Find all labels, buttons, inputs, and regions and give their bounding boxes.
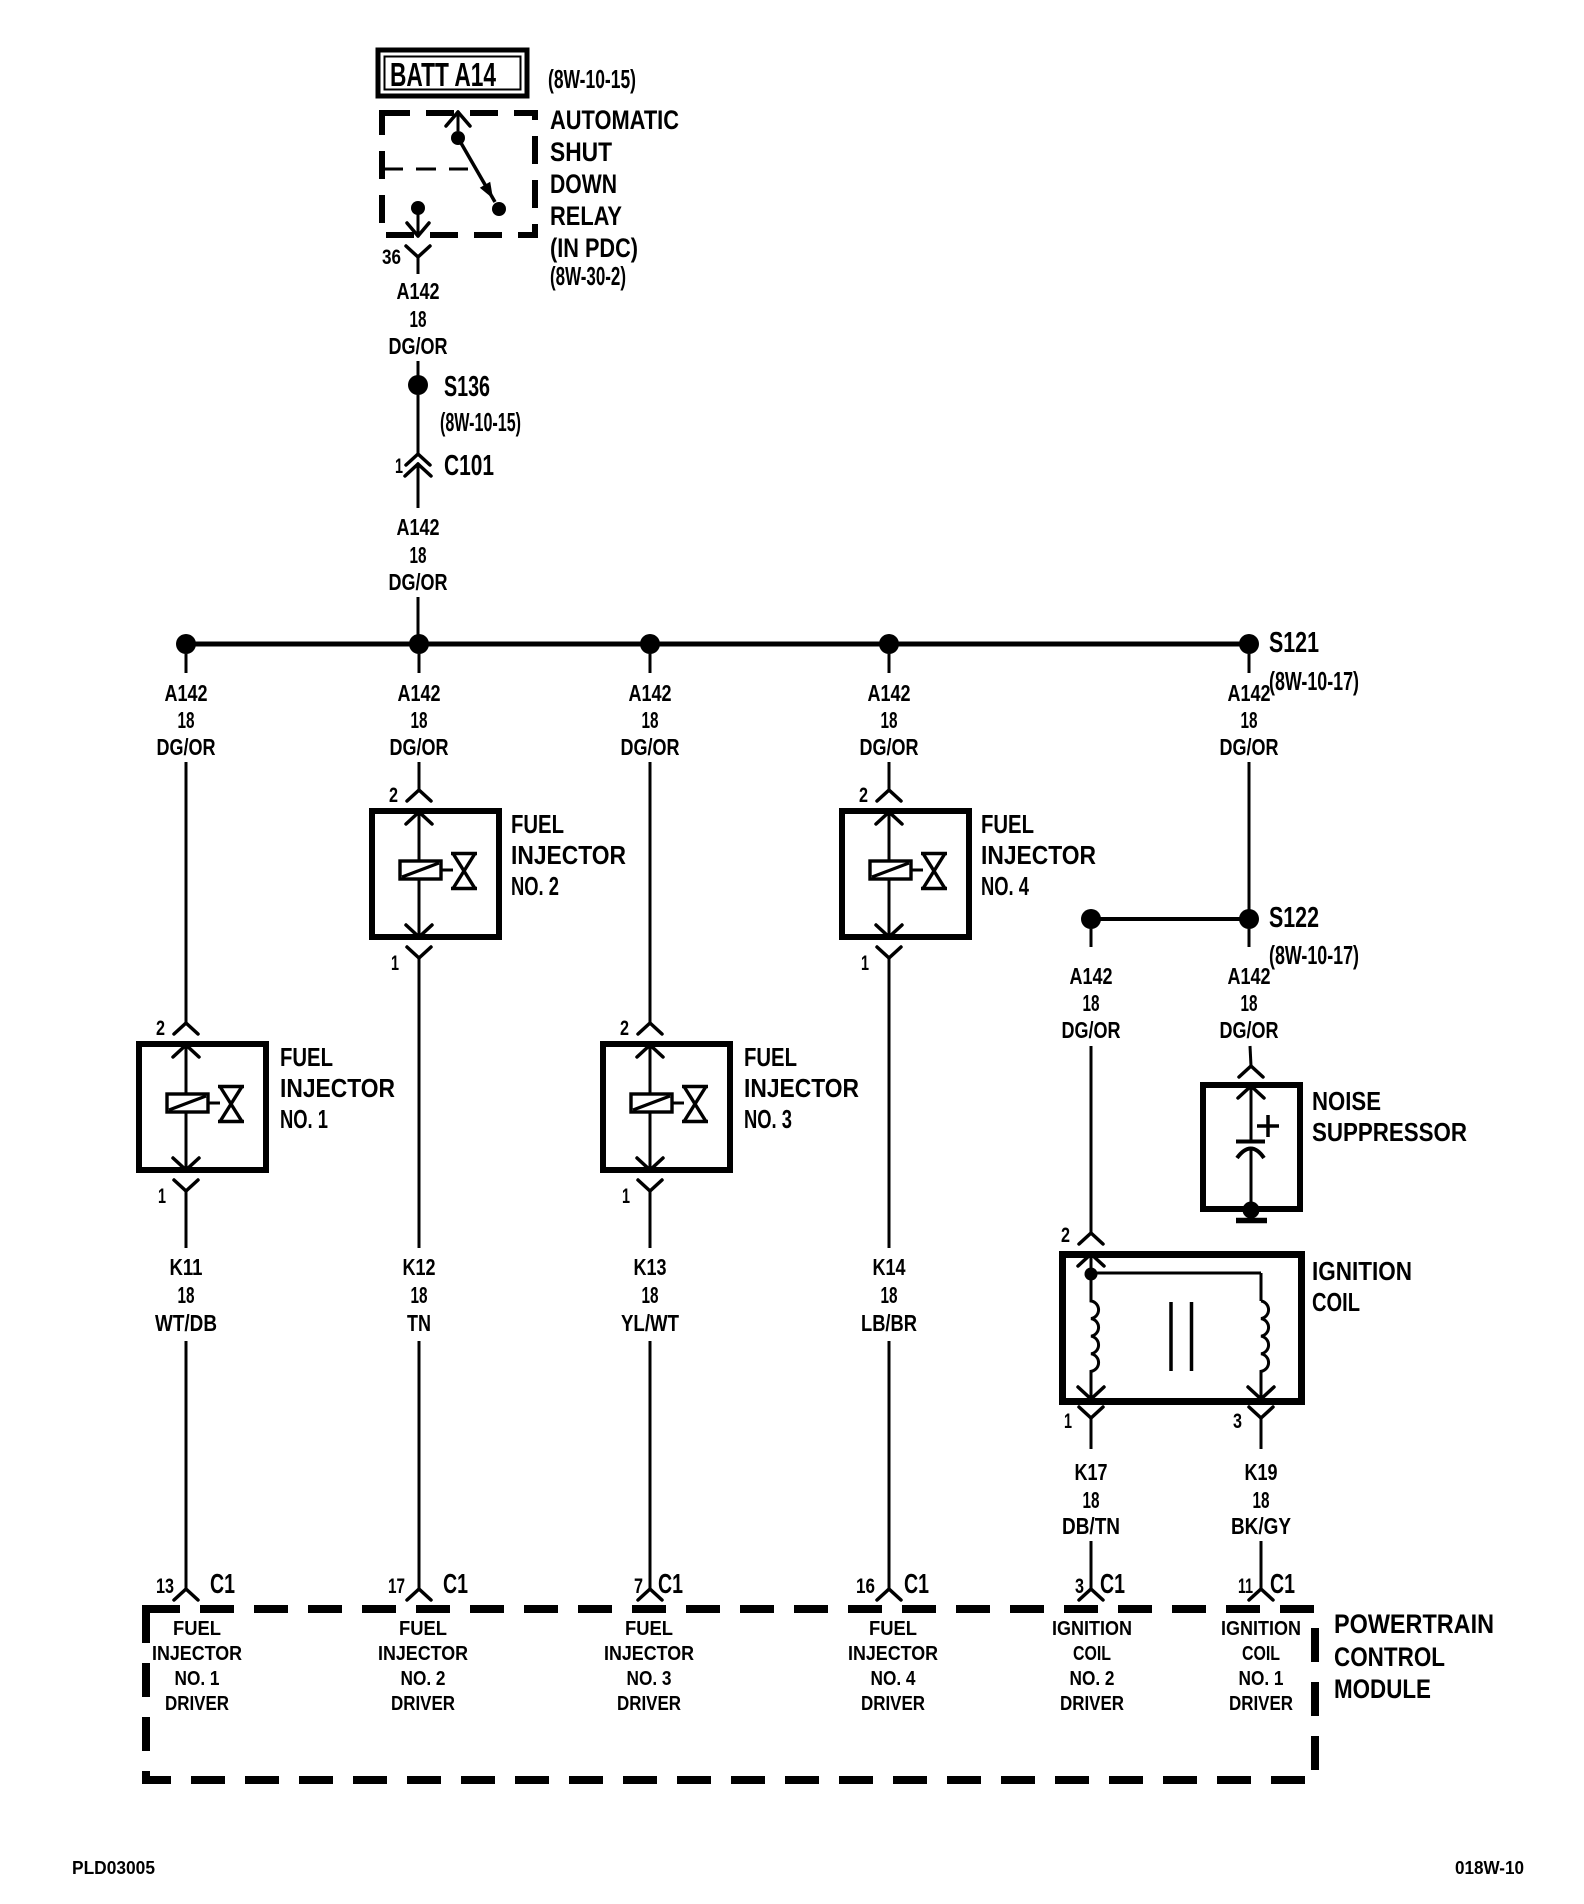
PCM driver text FUEL INJECTOR NO. 3 [604,1617,694,1715]
wire label A142 18 DG/OR (relay to S136) [389,278,448,359]
wire label K12 18 TN [403,1254,436,1336]
svg-text:17: 17 [388,1575,405,1598]
svg-text:A142: A142 [629,680,672,706]
wire label A142 18 DG/OR x=1249 [1220,963,1279,1043]
transformer core lines [1171,1302,1192,1371]
svg-text:1: 1 [391,952,399,975]
junction dot on bus x=650 [640,634,660,654]
bus wire A142 (splice S121) [186,642,1249,647]
PCM driver text FUEL INJECTOR NO. 2 [378,1617,468,1715]
fuel injector 3 solenoid coil [631,1094,672,1112]
secondary winding L2 [1261,1301,1269,1397]
svg-text:(IN PDC): (IN PDC) [550,233,638,263]
PCM driver text IGNITION COIL NO. 2 [1052,1617,1132,1715]
svg-text:DG/OR: DG/OR [1220,734,1279,760]
svg-text:INJECTOR: INJECTOR [981,840,1096,870]
wire K1x below fuel injector 4 [888,980,891,1248]
wire stub below bus x=1249 [1248,654,1251,673]
capacitor C (noise suppressor) top plate [1236,1140,1265,1144]
PCM pin 11 connector C1 [1249,1589,1261,1600]
wire label K17 18 DB/TN [1062,1459,1120,1539]
PCM driver text IGNITION COIL NO. 1 [1221,1617,1301,1715]
wire capacitor to case ground [1250,1150,1253,1203]
wire to PCM pin 13 [185,1341,188,1589]
svg-text:18: 18 [642,1282,659,1308]
wire stub below junction x=1091 [1090,929,1093,947]
svg-text:18: 18 [1253,1487,1270,1513]
svg-text:K14: K14 [873,1254,906,1280]
wire C101 to bus [417,464,420,508]
svg-text:DB/TN: DB/TN [1062,1513,1120,1539]
svg-text:2: 2 [859,784,868,807]
svg-text:NO. 4: NO. 4 [981,871,1029,901]
label FUEL INJECTOR NO. 4 [981,809,1096,901]
label POWERTRAIN CONTROL MODULE [1334,1609,1494,1704]
svg-text:DG/OR: DG/OR [1062,1017,1121,1043]
fuel injector 3 valve (bowtie) [682,1087,708,1122]
label FUEL INJECTOR NO. 1 [280,1042,395,1134]
svg-text:FUEL: FUEL [511,809,564,839]
svg-text:SUPPRESSOR: SUPPRESSOR [1312,1117,1467,1147]
relay name text [550,105,679,291]
junction dot on bus x=1249 [1239,634,1259,654]
svg-text:FUEL: FUEL [625,1617,673,1640]
label FUEL INJECTOR NO. 3 [744,1042,859,1134]
wire label K19 18 BK/GY [1231,1459,1291,1539]
wire label A142 18 DG/OR x=650 [621,680,680,760]
ignition coil pin 2 connector [1079,1233,1091,1244]
connector C101 [405,454,431,476]
PCM pin 16 connector C1 [877,1589,889,1600]
svg-text:K11: K11 [170,1254,203,1280]
svg-text:NO. 1: NO. 1 [1239,1667,1284,1690]
wire K1x below fuel injector 2 [418,980,421,1248]
ignition coil internal pin 1 arrow [1078,1387,1091,1399]
svg-text:COIL: COIL [1242,1642,1280,1665]
svg-text:018W-10: 018W-10 [1455,1858,1524,1878]
svg-text:3: 3 [1233,1410,1242,1433]
svg-text:DRIVER: DRIVER [1229,1692,1293,1715]
svg-text:18: 18 [881,1282,898,1308]
ground stub bar [1236,1218,1267,1224]
svg-text:C1: C1 [1100,1568,1125,1599]
relay internal dashed divider [383,168,468,171]
svg-text:18: 18 [411,1282,428,1308]
label IGNITION COIL [1312,1256,1412,1317]
svg-text:K17: K17 [1075,1459,1108,1485]
svg-text:18: 18 [410,542,427,568]
svg-text:3: 3 [1075,1575,1084,1598]
svg-text:S121: S121 [1269,627,1319,659]
svg-text:2: 2 [389,784,398,807]
ignition coil pin 3 connector [1249,1407,1273,1449]
junction dot on bus x=186 [176,634,196,654]
fuel injector 1 solenoid coil [167,1094,208,1112]
svg-text:AUTOMATIC: AUTOMATIC [550,105,679,135]
svg-text:FUEL: FUEL [744,1042,797,1072]
svg-text:A142: A142 [398,680,441,706]
svg-text:RELAY: RELAY [550,201,622,231]
fuel injector 4 solenoid coil [870,861,911,879]
svg-text:INJECTOR: INJECTOR [511,840,626,870]
PCM driver text FUEL INJECTOR NO. 1 [152,1617,242,1715]
svg-text:A142: A142 [165,680,208,706]
svg-text:C1: C1 [658,1568,683,1599]
svg-text:DRIVER: DRIVER [861,1692,925,1715]
fuel injector 4 internal wire and pin 1 arrow [876,879,902,937]
svg-text:FUEL: FUEL [173,1617,221,1640]
label S122 [1269,902,1359,970]
svg-text:18: 18 [1241,707,1258,733]
svg-text:COIL: COIL [1073,1642,1111,1665]
wire A142 down to fuel injector 2 [418,762,421,790]
svg-text:(8W-10-17): (8W-10-17) [1269,940,1359,970]
noise suppressor pin connector [1239,1066,1251,1077]
svg-text:K19: K19 [1245,1459,1278,1485]
svg-text:YL/WT: YL/WT [621,1310,679,1336]
svg-text:DG/OR: DG/OR [157,734,216,760]
fuel injector 4 valve (bowtie) [921,854,947,889]
svg-text:1: 1 [395,455,403,478]
label NOISE SUPPRESSOR [1312,1086,1467,1147]
svg-text:18: 18 [642,707,659,733]
svg-text:11: 11 [1238,1575,1253,1598]
svg-text:IGNITION: IGNITION [1221,1617,1301,1640]
pin 1 connector of fuel injector 2 [407,947,431,980]
fuel injector 2 valve (bowtie) [451,854,477,889]
fuel injector 2 solenoid coil [400,861,441,879]
svg-text:BATT A14: BATT A14 [390,56,496,93]
relay coil pin 36 [407,201,429,236]
wire down to noise suppressor [1250,1046,1251,1066]
noise suppressor internal pin arrow [1238,1086,1264,1140]
svg-text:18: 18 [881,707,898,733]
fuel injector NO. 2 box [372,811,499,937]
svg-text:BK/GY: BK/GY [1231,1513,1291,1539]
relay common pin arrow [446,112,470,145]
svg-text:INJECTOR: INJECTOR [604,1642,694,1665]
power feed box BATT A14 [378,50,527,96]
svg-text:TN: TN [407,1310,431,1336]
pin 2 connector of fuel injector 1 [174,1023,186,1034]
svg-text:18: 18 [410,306,427,332]
svg-text:18: 18 [178,1282,195,1308]
relay pin 36 connector [406,246,430,274]
pin 1 connector of fuel injector 3 [638,1180,662,1213]
svg-text:DG/OR: DG/OR [390,734,449,760]
svg-text:(8W-30-2): (8W-30-2) [550,261,626,291]
svg-text:(8W-10-15): (8W-10-15) [440,407,521,437]
svg-text:NO. 2: NO. 2 [401,1667,446,1690]
label S121 [1269,627,1359,696]
svg-text:COIL: COIL [1312,1287,1360,1317]
wire segment to S136 [417,361,420,376]
svg-text:18: 18 [1241,990,1258,1016]
svg-text:NO. 1: NO. 1 [175,1667,220,1690]
wire A142 down to fuel injector 4 [888,762,891,790]
polarity plus sign [1257,1115,1279,1137]
fuel injector 1 internal wire and pin 1 arrow [173,1112,199,1170]
svg-text:S122: S122 [1269,902,1319,934]
svg-text:1: 1 [861,952,869,975]
svg-text:18: 18 [1083,990,1100,1016]
svg-text:NO. 4: NO. 4 [871,1667,916,1690]
svg-text:DG/OR: DG/OR [621,734,680,760]
splice S136 [408,375,428,395]
svg-text:(8W-10-17): (8W-10-17) [1269,666,1359,696]
svg-text:A142: A142 [1228,963,1271,989]
wire primary top link [1091,1273,1261,1301]
pin 1 connector of fuel injector 1 [174,1180,198,1213]
wire stub below bus x=650 [649,654,652,673]
svg-text:DRIVER: DRIVER [391,1692,455,1715]
svg-text:NO. 3: NO. 3 [627,1667,672,1690]
wire label A142 18 DG/OR x=1091 [1062,963,1121,1043]
svg-text:A142: A142 [868,680,911,706]
svg-text:K13: K13 [634,1254,667,1280]
pin 1 connector of fuel injector 4 [877,947,901,980]
svg-text:LB/BR: LB/BR [861,1310,917,1336]
wire to PCM pin 7 [649,1341,652,1589]
svg-text:A142: A142 [397,278,440,304]
fuel injector 2 internal wire and pin 1 arrow [406,879,432,937]
ignition coil internal pin 3 arrow [1248,1387,1261,1399]
splice S122 dot [1239,909,1259,929]
junction dot left of S122 [1081,909,1101,929]
svg-text:1: 1 [158,1185,166,1208]
wire label K14 18 LB/BR [861,1254,917,1336]
svg-text:1: 1 [1064,1410,1072,1433]
fuel injector NO. 3 box [603,1044,730,1170]
svg-text:C1: C1 [1270,1568,1295,1599]
svg-text:13: 13 [156,1575,174,1598]
wire A142 down to fuel injector 1 [185,762,188,1023]
svg-text:DG/OR: DG/OR [389,333,448,359]
fuel injector 3 internal wire and pin 1 arrow [637,1112,663,1170]
PCM pin 17 connector C1 [407,1589,419,1600]
svg-text:FUEL: FUEL [981,809,1034,839]
svg-text:PLD03005: PLD03005 [72,1858,155,1878]
svg-text:K12: K12 [403,1254,436,1280]
svg-text:7: 7 [634,1575,643,1598]
pin 2 connector of fuel injector 3 [638,1023,650,1034]
fuel injector 3 valve link [672,1102,684,1105]
svg-text:2: 2 [1061,1224,1070,1247]
svg-text:FUEL: FUEL [399,1617,447,1640]
svg-text:18: 18 [411,707,428,733]
noise suppressor box [1203,1085,1300,1209]
svg-text:NO. 3: NO. 3 [744,1104,792,1134]
wire label A142 18 DG/OR x=889 [860,680,919,760]
svg-text:NO. 2: NO. 2 [1070,1667,1115,1690]
wire stub below bus x=889 [888,654,891,673]
fuel injector 2 internal pin 2 arrow [406,812,432,861]
primary winding L1 [1091,1274,1099,1397]
capacitor C curved plate [1237,1149,1264,1159]
label S136 [440,371,521,437]
svg-text:2: 2 [156,1017,165,1040]
fuel injector 4 internal pin 2 arrow [876,812,902,861]
wire K1x below fuel injector 1 [185,1213,188,1248]
svg-text:2: 2 [620,1017,629,1040]
fuel injector NO. 1 box [139,1044,266,1170]
svg-text:IGNITION: IGNITION [1312,1256,1412,1286]
svg-text:INJECTOR: INJECTOR [378,1642,468,1665]
svg-text:A142: A142 [1070,963,1113,989]
svg-text:18: 18 [1083,1487,1100,1513]
wire A142 down to fuel injector 3 [649,762,652,1023]
PCM pin 3 connector C1 [1079,1589,1091,1600]
pin 2 connector of fuel injector 4 [877,790,889,801]
wire stub below bus x=419 [418,654,421,673]
svg-text:FUEL: FUEL [869,1617,917,1640]
wire label K13 18 YL/WT [621,1254,679,1336]
wire to PCM pin 17 [418,1341,421,1589]
wire S122 horizontal [1091,917,1249,921]
svg-text:NO. 2: NO. 2 [511,871,559,901]
wire S121 down to S122 [1248,762,1251,910]
wire stub below S122 [1248,929,1251,947]
svg-text:DRIVER: DRIVER [617,1692,681,1715]
wire label A142 18 DG/OR x=419 [390,680,449,760]
ignition coil T1 box [1063,1255,1302,1402]
svg-text:1: 1 [622,1185,630,1208]
svg-text:NOISE: NOISE [1312,1086,1381,1116]
svg-text:NO. 1: NO. 1 [280,1104,328,1134]
svg-text:C1: C1 [210,1568,235,1599]
svg-text:A142: A142 [1228,680,1271,706]
fuel injector 4 valve link [911,869,923,872]
svg-text:INJECTOR: INJECTOR [744,1073,859,1103]
powertrain control module dashed box [146,1609,1315,1780]
node primary junction dot [1085,1268,1098,1281]
svg-text:MODULE: MODULE [1334,1674,1431,1704]
svg-text:18: 18 [178,707,195,733]
fuel injector 1 valve (bowtie) [218,1087,244,1122]
fuel injector 3 internal pin 2 arrow [637,1045,663,1094]
svg-text:INJECTOR: INJECTOR [152,1642,242,1665]
wire stub below bus x=186 [185,654,188,673]
svg-text:DG/OR: DG/OR [860,734,919,760]
svg-text:CONTROL: CONTROL [1334,1642,1445,1672]
svg-text:(8W-10-15): (8W-10-15) [548,64,636,94]
PCM driver text FUEL INJECTOR NO. 4 [848,1617,938,1715]
svg-text:36: 36 [382,246,401,269]
svg-text:DOWN: DOWN [550,169,617,199]
fuel injector 1 internal pin 2 arrow [173,1045,199,1094]
svg-text:DG/OR: DG/OR [1220,1017,1279,1043]
svg-text:FUEL: FUEL [280,1042,333,1072]
svg-text:INJECTOR: INJECTOR [848,1642,938,1665]
svg-text:POWERTRAIN: POWERTRAIN [1334,1609,1494,1639]
wire label K11 18 WT/DB [155,1254,217,1336]
svg-text:IGNITION: IGNITION [1052,1617,1132,1640]
wire S136 to C101 [417,395,420,454]
wire to PCM pin 16 [888,1341,891,1589]
svg-text:C101: C101 [444,450,494,482]
junction dot on bus x=889 [879,634,899,654]
relay automatic shut down relay (dashed outline) [382,113,535,235]
svg-text:DRIVER: DRIVER [1060,1692,1124,1715]
label FUEL INJECTOR NO. 2 [511,809,626,901]
wire label A142 18 DG/OR (C101 to splice S121 bus) [389,514,448,595]
wire K1x below fuel injector 3 [649,1213,652,1248]
ignition coil internal pin 2 arrow [1078,1254,1104,1268]
wire coil pin3 to PCM pin 11 [1260,1541,1263,1589]
wire segment into bus [417,597,420,642]
wire coil pin1 to PCM pin 3 [1090,1541,1093,1589]
svg-text:DG/OR: DG/OR [389,569,448,595]
ground junction dot [1243,1202,1260,1219]
svg-text:INJECTOR: INJECTOR [280,1073,395,1103]
ignition coil pin 1 connector [1079,1407,1103,1449]
fuel injector NO. 4 box [842,811,969,937]
PCM pin 7 connector C1 [638,1589,650,1600]
svg-text:C1: C1 [443,1568,468,1599]
svg-text:WT/DB: WT/DB [155,1310,217,1336]
junction dot on bus x=419 [409,634,429,654]
svg-text:S136: S136 [444,371,490,403]
wire down to ignition coil pin 2 [1090,1046,1093,1233]
relay switch blade [461,143,506,216]
wire label A142 18 DG/OR x=186 [157,680,216,760]
svg-text:SHUT: SHUT [550,137,612,167]
wire label A142 18 DG/OR x=1249 [1220,680,1279,760]
fuel injector 1 valve link [208,1102,220,1105]
svg-text:A142: A142 [397,514,440,540]
PCM pin 13 connector C1 [174,1589,186,1600]
svg-text:DRIVER: DRIVER [165,1692,229,1715]
pin 2 connector of fuel injector 2 [407,790,419,801]
svg-text:C1: C1 [904,1568,929,1599]
svg-text:16: 16 [856,1575,875,1598]
fuel injector 2 valve link [441,869,453,872]
